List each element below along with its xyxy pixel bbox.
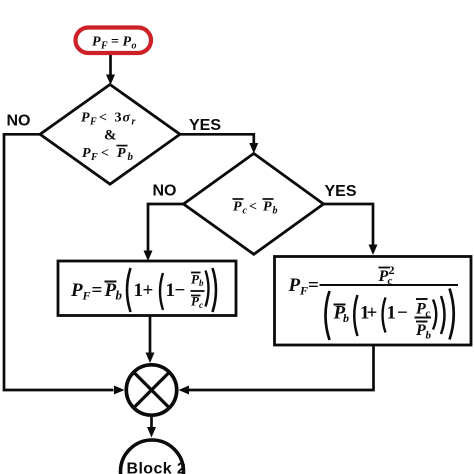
numerator Pc^2 [379, 267, 390, 269]
wire NO branch D2 to left box [148, 204, 184, 251]
svg-text:NO: NO [153, 183, 177, 200]
decision D2 diamond [184, 154, 324, 255]
svg-text:r: r [132, 117, 136, 128]
multiplier circle with X [126, 365, 176, 415]
process box right [275, 257, 472, 346]
svg-text:−: − [175, 280, 186, 301]
svg-text:=: = [111, 35, 119, 50]
svg-text:b: b [343, 311, 349, 325]
svg-text:=: = [308, 275, 319, 296]
wire NO branch D1 left and down to multiplier [4, 134, 114, 390]
svg-text:<: < [99, 111, 107, 126]
svg-text:YES: YES [325, 183, 357, 200]
formula left box [70, 268, 216, 312]
svg-text:P: P [288, 275, 301, 296]
svg-text:F: F [100, 41, 108, 52]
svg-text:=: = [92, 280, 103, 301]
svg-text:b: b [273, 205, 278, 216]
svg-text:−: − [397, 303, 408, 324]
svg-text:b: b [199, 278, 204, 288]
svg-text:NO: NO [7, 113, 31, 130]
svg-text:c: c [199, 300, 203, 310]
svg-text:b: b [116, 288, 123, 303]
svg-text:P: P [263, 199, 272, 214]
denominator [326, 291, 330, 340]
svg-text:P: P [82, 146, 91, 161]
svg-text:<: < [249, 199, 257, 214]
svg-text:1: 1 [387, 303, 397, 324]
svg-text:2: 2 [389, 263, 395, 277]
svg-text:<: < [101, 146, 109, 161]
wire YES branch D1 to D2 [180, 134, 254, 143]
Block 2 circle [121, 440, 184, 474]
svg-text:+: + [367, 303, 378, 324]
svg-text:3: 3 [115, 111, 122, 126]
wire multiplier to Block 2 [150, 417, 153, 428]
formula right box [288, 263, 459, 342]
svg-text:P: P [70, 280, 83, 301]
decision D1 diamond [40, 85, 180, 185]
svg-text:o: o [132, 41, 137, 52]
svg-text:P: P [81, 111, 90, 126]
wire left box to multiplier [149, 316, 152, 354]
svg-text:b: b [128, 151, 134, 163]
svg-text:F: F [82, 289, 91, 303]
svg-text:P: P [415, 322, 426, 339]
svg-text:F: F [299, 284, 308, 298]
svg-text:c: c [243, 205, 248, 216]
svg-text:P: P [415, 301, 426, 318]
wire YES branch D2 to right box [324, 204, 374, 245]
svg-text:+: + [143, 280, 154, 301]
svg-text:P: P [123, 35, 132, 50]
svg-text:F: F [90, 152, 98, 163]
wire right box to multiplier [189, 345, 374, 390]
fraction bar [320, 284, 459, 286]
wire stadium to decision D1 [109, 55, 112, 76]
svg-text:YES: YES [189, 117, 221, 134]
svg-text:P: P [92, 35, 101, 50]
svg-text:σ: σ [123, 111, 131, 126]
svg-text:P: P [233, 199, 242, 214]
svg-text:F: F [89, 117, 97, 128]
svg-text:Block 2: Block 2 [127, 461, 187, 474]
svg-text:b: b [426, 330, 432, 342]
svg-text:P: P [117, 146, 126, 161]
process box left [58, 261, 236, 316]
svg-text:&: & [104, 128, 117, 144]
terminator stadium P_F = P_o [76, 28, 152, 54]
